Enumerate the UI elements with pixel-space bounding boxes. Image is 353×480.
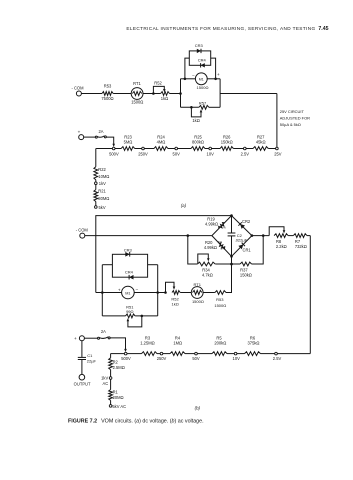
svg-text:250V: 250V [138,152,148,157]
svg-text:5kV: 5kV [99,205,106,210]
svg-text:200kΩ: 200kΩ [214,341,226,346]
svg-text:45kΩ: 45kΩ [256,140,266,145]
svg-text:2A: 2A [101,329,106,334]
svg-text:- COM: - COM [76,228,89,233]
svg-text:R21: R21 [98,189,106,194]
svg-text:4.99kΩ: 4.99kΩ [205,222,218,227]
svg-text:M1: M1 [125,291,130,295]
svg-text:732kΩ: 732kΩ [295,244,307,249]
svg-text:CR4: CR4 [125,270,134,275]
svg-text:+: + [217,72,220,77]
svg-text:1kΩ: 1kΩ [161,96,168,101]
svg-text:7500Ω: 7500Ω [101,96,113,101]
svg-text:1kΩ: 1kΩ [192,118,199,123]
svg-text:CR1: CR1 [242,248,251,253]
svg-text:5MΩ: 5MΩ [124,140,133,145]
svg-text:4MΩ: 4MΩ [157,140,166,145]
svg-text:2.5MΩ: 2.5MΩ [113,365,125,370]
svg-text:ELECTRICAL INSTRUMENTS FOR MEA: ELECTRICAL INSTRUMENTS FOR MEASURING, SE… [126,26,315,31]
svg-text:25V: 25V [274,152,282,157]
svg-text:−: − [192,73,195,78]
svg-text:1%: 1% [220,247,225,251]
svg-text:25V CIRCUIT: 25V CIRCUIT [280,109,305,114]
svg-text:1%: 1% [218,240,223,244]
svg-text:1kV: 1kV [99,181,106,186]
svg-text:50V: 50V [173,152,181,157]
svg-text:1500Ω: 1500Ω [131,100,143,105]
svg-text:4.7kΩ: 4.7kΩ [202,273,213,278]
svg-text:+: + [118,287,121,292]
svg-text:50V: 50V [192,356,200,361]
svg-text:CR4: CR4 [198,58,207,63]
svg-text:CR2: CR2 [242,219,251,224]
svg-text:50µA & 5kΩ: 50µA & 5kΩ [280,122,301,127]
svg-text:R1: R1 [113,390,119,395]
svg-text:FIGURE 7.2VOM circuits. (a) dc: FIGURE 7.2VOM circuits. (a) dc voltage. … [68,419,204,425]
svg-text:(b): (b) [195,406,201,411]
svg-text:99Ω: 99Ω [126,309,133,314]
svg-text:RT1: RT1 [193,282,201,287]
svg-text:R52: R52 [154,81,162,86]
svg-text:R22: R22 [98,167,106,172]
svg-text:1500Ω: 1500Ω [214,303,226,308]
svg-text:1500Ω: 1500Ω [192,299,204,304]
svg-text:+: + [74,336,77,341]
svg-text:375kΩ: 375kΩ [248,341,260,346]
svg-text:AC: AC [103,381,109,386]
svg-text:80MΩ: 80MΩ [98,196,109,201]
svg-text:5kV AC: 5kV AC [112,404,126,409]
svg-text:1kV: 1kV [101,375,108,380]
svg-text:OUTPUT: OUTPUT [74,381,91,386]
svg-text:2.5V: 2.5V [273,356,282,361]
svg-text:R2: R2 [113,359,119,364]
svg-text:CR3: CR3 [124,248,133,253]
svg-text:2A: 2A [98,129,103,134]
svg-text:R57: R57 [199,100,207,105]
svg-text:150kΩ: 150kΩ [221,140,233,145]
svg-text:1500Ω: 1500Ω [197,85,209,90]
svg-text:(a): (a) [181,203,187,208]
svg-text:2.5V: 2.5V [241,152,250,157]
svg-text:800kΩ: 800kΩ [192,140,204,145]
svg-text:10V: 10V [233,356,241,361]
svg-text:500V: 500V [121,356,131,361]
svg-text:CR3: CR3 [195,43,204,48]
svg-text:ADJUSTED FOR: ADJUSTED FOR [280,115,310,120]
svg-text:4.99kΩ: 4.99kΩ [204,245,217,250]
svg-text:- COM: - COM [71,85,84,90]
svg-text:250V: 250V [157,356,167,361]
svg-text:+: + [78,130,81,135]
svg-text:RT1: RT1 [133,81,141,86]
svg-text:150kΩ: 150kΩ [240,273,252,278]
svg-text:1kΩ: 1kΩ [171,301,178,306]
svg-text:.022µF: .022µF [235,237,248,242]
svg-text:10V: 10V [207,152,215,157]
svg-text:1%: 1% [221,226,226,230]
svg-text:R53: R53 [216,297,224,302]
svg-text:7.45: 7.45 [318,26,328,32]
svg-text:R53: R53 [104,83,112,88]
svg-text:1MΩ: 1MΩ [173,341,182,346]
svg-text:10MΩ: 10MΩ [98,174,109,179]
svg-text:22µF: 22µF [87,358,97,363]
svg-text:M1: M1 [199,78,204,82]
svg-text:−: − [136,287,139,292]
svg-text:2.2kΩ: 2.2kΩ [276,244,287,249]
svg-text:20MΩ: 20MΩ [113,395,124,400]
svg-text:500V: 500V [109,152,119,157]
svg-text:1.25MΩ: 1.25MΩ [140,341,154,346]
